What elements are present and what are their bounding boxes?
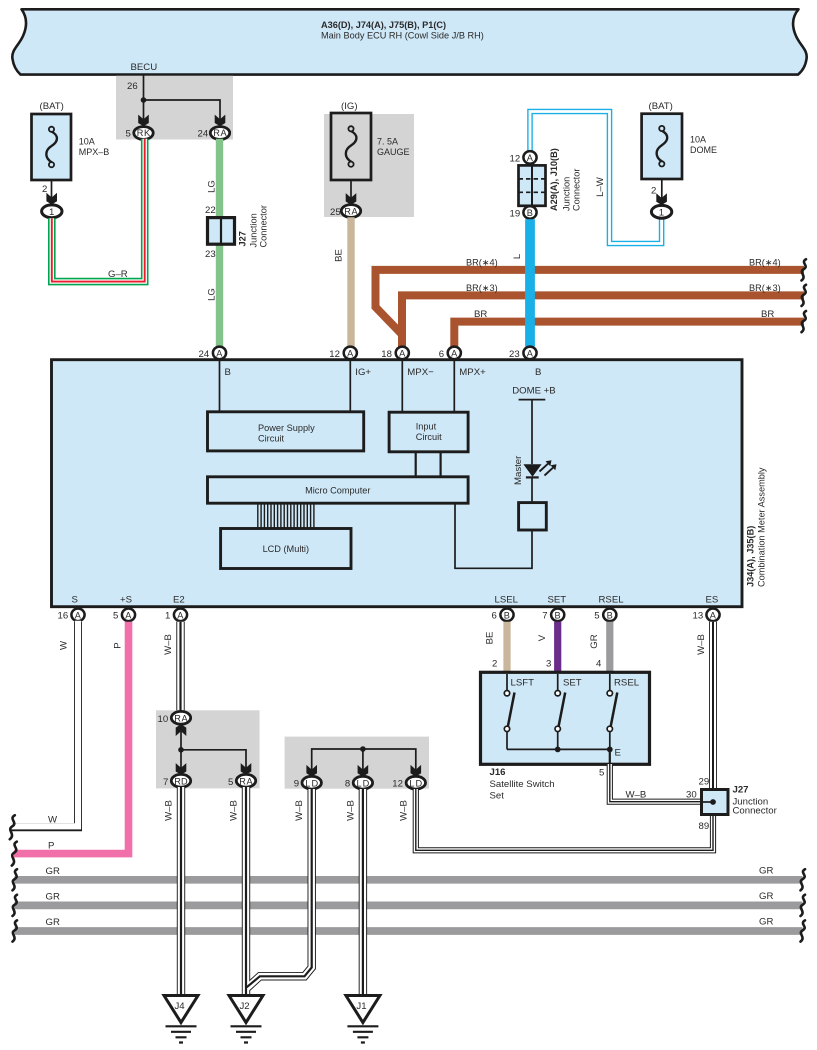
svg-text:J16: J16 <box>490 767 506 778</box>
svg-text:Connector: Connector <box>259 205 269 247</box>
svg-text:A: A <box>710 610 717 620</box>
J16 satellite switch set box <box>481 672 650 764</box>
svg-text:L: L <box>512 253 523 259</box>
terminal 12 A (junction connector) <box>510 151 537 164</box>
arrow into RA <box>215 115 226 127</box>
svg-text:RD: RD <box>174 776 188 786</box>
terminal 5 RA <box>228 774 256 787</box>
internal wire MPX- to input circuit <box>401 361 403 412</box>
LED Master <box>513 455 557 485</box>
svg-text:GR: GR <box>46 917 60 928</box>
svg-text:J34(A), J35(B): J34(A), J35(B) <box>746 526 756 587</box>
svg-text:A: A <box>347 349 354 359</box>
ground J1 <box>346 996 380 1043</box>
svg-text:22: 22 <box>205 205 216 216</box>
svg-text:B: B <box>527 208 533 218</box>
svg-text:RA: RA <box>213 128 227 138</box>
svg-text:MPX+: MPX+ <box>459 367 486 378</box>
svg-text:1: 1 <box>49 207 54 218</box>
input circuit box <box>389 412 468 452</box>
svg-text:B: B <box>225 367 231 378</box>
svg-text:10: 10 <box>158 714 169 725</box>
rotated label J34(A), J35(B) Combination Meter Assembly <box>746 467 767 587</box>
wire to RK branch <box>143 100 145 119</box>
terminal 7 RD <box>163 774 191 787</box>
svg-text:Satellite Switch: Satellite Switch <box>490 779 555 790</box>
wire W-B (13 A ES to J27 pin 29) <box>696 622 713 790</box>
arrow into 25 RA <box>346 193 357 205</box>
relay block gray box (10 RA / 7 RD / 5 RA) <box>156 710 260 788</box>
svg-text:RSEL: RSEL <box>599 595 625 606</box>
svg-text:L–W: L–W <box>595 176 606 197</box>
torn edges GR bottom <box>13 920 806 941</box>
svg-text:+S: +S <box>120 595 132 606</box>
svg-text:10A: 10A <box>79 137 95 147</box>
svg-text:S: S <box>72 595 78 606</box>
svg-text:W–B: W–B <box>164 800 175 821</box>
svg-text:A: A <box>177 610 184 620</box>
wire GR (top) <box>15 866 803 880</box>
switch RSEL <box>607 674 640 749</box>
svg-text:BE: BE <box>334 249 345 262</box>
fuse 10A DOME <box>642 101 717 179</box>
arrow into RK <box>138 115 149 127</box>
svg-text:18: 18 <box>381 349 392 360</box>
terminal 10 RA <box>158 711 191 724</box>
svg-text:89: 89 <box>699 821 710 832</box>
wire BR <box>454 309 804 347</box>
terminal 6 A (meter top) <box>439 347 461 360</box>
wire BR(*4) <box>376 258 805 348</box>
svg-text:RSEL: RSEL <box>614 678 640 689</box>
torn edges GR middle <box>13 895 806 916</box>
svg-text:LD: LD <box>305 778 318 788</box>
svg-text:26: 26 <box>127 81 138 92</box>
svg-text:W–B: W–B <box>229 800 240 821</box>
svg-text:GR: GR <box>759 917 773 928</box>
svg-text:2: 2 <box>651 186 656 197</box>
terminal 12 A (meter top) <box>329 347 357 360</box>
svg-text:GR: GR <box>759 866 773 877</box>
svg-text:24: 24 <box>199 349 210 360</box>
svg-text:Junction: Junction <box>562 177 572 211</box>
svg-text:MPX–B: MPX–B <box>79 147 110 157</box>
bus input circuit to micro computer <box>416 452 441 477</box>
svg-text:2: 2 <box>492 659 497 670</box>
arrow into 7 RD <box>176 763 187 775</box>
arrow out of 10 RA (up) <box>176 724 187 736</box>
svg-text:A: A <box>75 610 82 620</box>
svg-text:RK: RK <box>137 128 151 138</box>
svg-text:5: 5 <box>126 129 131 140</box>
svg-text:W: W <box>59 640 70 650</box>
wire V (7 B to J16 pin 3) <box>537 622 558 673</box>
svg-text:GR: GR <box>759 891 773 902</box>
svg-text:LSEL: LSEL <box>495 595 519 606</box>
svg-text:A: A <box>527 349 534 359</box>
svg-text:BR: BR <box>474 309 487 320</box>
wire GR (5 B to J16 pin 4) <box>589 622 610 673</box>
svg-text:J27: J27 <box>733 785 749 796</box>
wire W-B (5 RA and 9 LD to ground J2) <box>246 787 312 996</box>
wire junction to 7 RD branch <box>180 750 182 768</box>
svg-text:W: W <box>48 815 58 826</box>
wire G-R <box>52 139 145 282</box>
ribbon hatch micro computer to LCD <box>258 505 314 529</box>
svg-text:1: 1 <box>165 611 170 622</box>
torn edges GR top <box>13 869 806 890</box>
wire GR (middle) <box>15 891 803 905</box>
svg-text:Set: Set <box>490 791 505 802</box>
svg-text:Circuit: Circuit <box>258 434 284 444</box>
svg-text:RA: RA <box>174 713 188 723</box>
svg-text:GR: GR <box>589 634 600 648</box>
terminal 24 A (meter top) <box>199 347 227 360</box>
svg-text:B: B <box>555 610 561 620</box>
svg-text:J27: J27 <box>238 231 248 246</box>
svg-text:SET: SET <box>548 595 567 606</box>
svg-text:Circuit: Circuit <box>416 432 442 442</box>
svg-text:W–B: W–B <box>345 800 356 821</box>
svg-text:30: 30 <box>686 790 697 801</box>
svg-text:5: 5 <box>228 777 233 788</box>
torn edge BR <box>802 311 807 332</box>
switch SET <box>555 674 582 749</box>
svg-text:MPX−: MPX− <box>407 367 434 378</box>
svg-text:LCD (Multi): LCD (Multi) <box>263 544 309 554</box>
node BECU <box>131 62 158 73</box>
svg-text:BR(∗3): BR(∗3) <box>749 283 781 293</box>
svg-text:BR(∗4): BR(∗4) <box>749 258 781 268</box>
junction dot (LD box) <box>360 746 366 752</box>
svg-text:BECU: BECU <box>131 62 158 73</box>
svg-text:B: B <box>607 610 613 620</box>
svg-text:RA: RA <box>239 776 253 786</box>
driver square <box>519 503 547 530</box>
svg-text:LSFT: LSFT <box>511 678 535 689</box>
terminal 9 LD <box>294 776 322 789</box>
svg-text:P: P <box>48 841 54 852</box>
terminal 5 A (meter bottom) <box>113 609 135 622</box>
svg-text:J2: J2 <box>240 1001 250 1012</box>
svg-text:A: A <box>451 349 458 359</box>
ground J4 <box>164 996 198 1043</box>
wire fuse to terminal 2 (DOME) <box>651 179 662 198</box>
svg-text:J4: J4 <box>175 1001 186 1012</box>
combination meter assembly box J34/J35 <box>52 360 743 607</box>
fuse 7.5A GAUGE <box>331 101 410 180</box>
arrow into 12 LD <box>411 765 422 777</box>
wire DOME +B to LED <box>531 400 533 465</box>
svg-text:BR: BR <box>761 309 774 320</box>
terminal 1 A (meter bottom) <box>165 609 187 622</box>
svg-text:BR(∗3): BR(∗3) <box>466 283 498 293</box>
svg-text:P: P <box>113 642 124 648</box>
svg-text:(IG): (IG) <box>341 101 358 112</box>
wire LG (24 RA to 24 A) <box>207 139 220 347</box>
svg-text:Combination Meter Assembly: Combination Meter Assembly <box>757 467 767 587</box>
svg-text:7: 7 <box>542 611 547 622</box>
svg-text:Connector: Connector <box>733 806 778 817</box>
svg-text:12: 12 <box>329 349 340 360</box>
svg-text:GAUGE: GAUGE <box>377 147 410 157</box>
fuse 10A MPX-B <box>32 101 110 180</box>
svg-text:G–R: G–R <box>108 269 128 280</box>
node DOME +B <box>512 385 555 399</box>
torn edge P <box>12 842 17 866</box>
wire to RA branch <box>144 100 221 119</box>
junction connector J27 (pins 22/23) <box>205 205 269 260</box>
pin name labels inside meter top <box>225 367 542 378</box>
svg-text:Main Body ECU RH (Cowl Side J/: Main Body ECU RH (Cowl Side J/B RH) <box>321 31 484 41</box>
svg-text:16: 16 <box>58 611 69 622</box>
terminal 16 A (meter bottom) <box>58 609 85 622</box>
svg-text:W–B: W–B <box>696 634 707 655</box>
svg-text:SET: SET <box>563 678 582 689</box>
svg-text:Power Supply: Power Supply <box>258 423 315 433</box>
terminal 19 B (junction connector) <box>510 206 537 219</box>
wire GR (bottom) <box>15 917 803 932</box>
wire fuse to terminal 25 <box>350 180 352 198</box>
switch common bus to node E <box>507 747 621 759</box>
wire W (16 A to left edge) <box>11 621 78 828</box>
wire BE (25 RA to 12 A) <box>334 217 352 346</box>
junction connector J27 (pins 29/30/89) <box>686 785 778 817</box>
svg-text:5: 5 <box>594 611 599 622</box>
svg-text:V: V <box>537 634 548 641</box>
svg-text:DOME: DOME <box>690 145 717 155</box>
svg-text:9: 9 <box>294 779 299 790</box>
svg-text:6: 6 <box>492 611 497 622</box>
svg-text:LG: LG <box>207 288 218 301</box>
J16 labels <box>490 767 555 802</box>
wire P (5 A to left edge) <box>14 622 129 854</box>
arrow into 5 RA <box>241 763 252 775</box>
wire LED to driver square <box>531 477 533 502</box>
terminal 5 RK <box>126 127 154 140</box>
svg-text:Junction: Junction <box>249 213 259 247</box>
wire LD bus <box>312 749 416 770</box>
arrow into 8 LD <box>358 765 369 777</box>
arrow into 9 LD <box>306 765 317 777</box>
svg-text:ES: ES <box>706 595 719 606</box>
svg-text:Master: Master <box>513 455 524 485</box>
wire W-B (J16 pin 5 to J27 pin 30) <box>599 764 702 802</box>
terminal 25 RA <box>330 205 361 218</box>
svg-text:12: 12 <box>510 153 521 164</box>
wire W-B (1 A E2 to 10 RA) <box>163 622 181 712</box>
svg-text:3: 3 <box>546 659 551 670</box>
wire 10 RA to junction <box>180 731 182 749</box>
svg-text:23: 23 <box>509 349 520 360</box>
BECU junction block (gray) <box>116 76 233 140</box>
LCD (Multi) box <box>221 529 351 569</box>
W-B labels below relay and LD boxes <box>164 800 410 821</box>
svg-text:25: 25 <box>330 207 341 218</box>
svg-text:E2: E2 <box>173 595 185 606</box>
arrow into circle 1 <box>46 193 57 205</box>
wire from BECU pin 26 <box>127 75 144 100</box>
svg-text:6: 6 <box>439 349 444 360</box>
junction block gray box (9 LD / 8 LD / 12 LD) <box>285 737 429 789</box>
internal wire MPX+ to input circuit <box>453 361 455 412</box>
svg-text:A36(D), J74(A), J75(B), P1(C): A36(D), J74(A), J75(B), P1(C) <box>321 20 446 30</box>
svg-text:(BAT): (BAT) <box>649 101 673 112</box>
terminal 12 LD <box>392 776 425 789</box>
svg-text:RA: RA <box>344 207 358 217</box>
internal wire B to power supply <box>219 361 221 412</box>
svg-text:B: B <box>535 367 541 378</box>
svg-text:23: 23 <box>205 249 216 260</box>
svg-text:BR(∗4): BR(∗4) <box>466 258 498 268</box>
svg-text:Micro Computer: Micro Computer <box>305 486 370 496</box>
svg-text:GR: GR <box>46 866 60 877</box>
meter bottom pin labels <box>72 595 719 606</box>
wire W-B (8 LD to ground J1) <box>359 789 367 996</box>
terminal 6 B (meter bottom) <box>492 609 514 622</box>
svg-text:5: 5 <box>113 611 118 622</box>
svg-text:29: 29 <box>699 777 710 788</box>
terminal 8 LD <box>345 776 373 789</box>
svg-text:A29(A), J10(B): A29(A), J10(B) <box>549 148 559 211</box>
junction dot (relay box) <box>178 747 184 753</box>
wire fuse to terminal 2 <box>42 180 52 198</box>
wire junction to 5 RA branch <box>181 750 246 768</box>
terminal 18 A (meter top) <box>381 347 409 360</box>
ground J2 <box>229 996 263 1043</box>
junction dot <box>141 97 147 103</box>
power source band A36/J74/J75/P1 Main Body ECU <box>12 9 806 74</box>
svg-text:12: 12 <box>392 779 403 790</box>
arrow into circle 1 (DOME) <box>656 193 667 205</box>
svg-text:A: A <box>527 153 534 163</box>
wire square to micro computer <box>455 503 532 568</box>
svg-text:Input: Input <box>416 421 437 431</box>
svg-text:4: 4 <box>596 659 602 670</box>
svg-text:5: 5 <box>599 768 604 779</box>
torn edge BR(*4) <box>802 259 807 280</box>
terminal 7 B (meter bottom) <box>542 609 564 622</box>
gauge fuse block (gray) <box>324 114 414 217</box>
internal wire IG+ to power supply <box>349 361 351 412</box>
torn edge BR(*3) <box>802 285 807 306</box>
svg-text:A: A <box>125 610 132 620</box>
svg-text:E: E <box>615 748 621 759</box>
svg-text:24: 24 <box>198 129 209 140</box>
terminal 5 B (meter bottom) <box>594 609 616 622</box>
wire W-B (12 LD to J27 pin 89) <box>416 789 713 850</box>
svg-text:Connector: Connector <box>572 169 582 211</box>
terminal 24 RA <box>198 127 230 140</box>
junction connector A29(A), J10(B) <box>519 148 582 211</box>
svg-text:13: 13 <box>693 611 704 622</box>
terminal circle 1 (DOME) <box>651 205 671 218</box>
svg-text:DOME +B: DOME +B <box>512 385 555 396</box>
svg-text:LD: LD <box>409 778 422 788</box>
svg-text:W–B: W–B <box>163 634 174 655</box>
torn edge W <box>10 815 15 839</box>
power supply circuit box <box>208 412 364 451</box>
micro computer box <box>208 477 469 503</box>
svg-text:LD: LD <box>357 778 370 788</box>
svg-text:GR: GR <box>46 892 60 903</box>
wire BR(*3) <box>402 283 804 347</box>
wire L (19 B to 23 A) <box>512 219 530 346</box>
svg-text:W–B: W–B <box>398 800 409 821</box>
wire BE (6 B to J16 pin 2) <box>485 622 508 673</box>
svg-text:7. 5A: 7. 5A <box>377 137 398 147</box>
svg-text:W–B: W–B <box>294 800 305 821</box>
svg-text:7: 7 <box>163 777 168 788</box>
svg-text:J1: J1 <box>356 1001 366 1012</box>
svg-text:LG: LG <box>207 180 218 193</box>
terminal 13 A (meter bottom) <box>693 609 720 622</box>
svg-text:(BAT): (BAT) <box>40 101 64 112</box>
svg-text:BE: BE <box>485 632 496 645</box>
svg-text:B: B <box>504 610 510 620</box>
svg-text:IG+: IG+ <box>355 367 371 378</box>
svg-text:8: 8 <box>345 779 350 790</box>
svg-text:A: A <box>216 349 223 359</box>
svg-text:W–B: W–B <box>626 790 647 801</box>
terminal circle 1 (MPX-B) <box>42 205 62 218</box>
svg-text:1: 1 <box>659 208 664 219</box>
svg-text:10A: 10A <box>690 135 706 145</box>
wire E inside J16 <box>609 749 611 764</box>
switch LSFT <box>504 674 534 749</box>
wire L-W (A29 pin12 to DOME circle 1) <box>530 112 662 244</box>
terminal 23 A (meter top) <box>509 347 537 360</box>
svg-text:A: A <box>399 349 406 359</box>
svg-text:19: 19 <box>510 208 521 219</box>
wire W-B (7 RD to ground J4) black layer <box>177 787 185 996</box>
